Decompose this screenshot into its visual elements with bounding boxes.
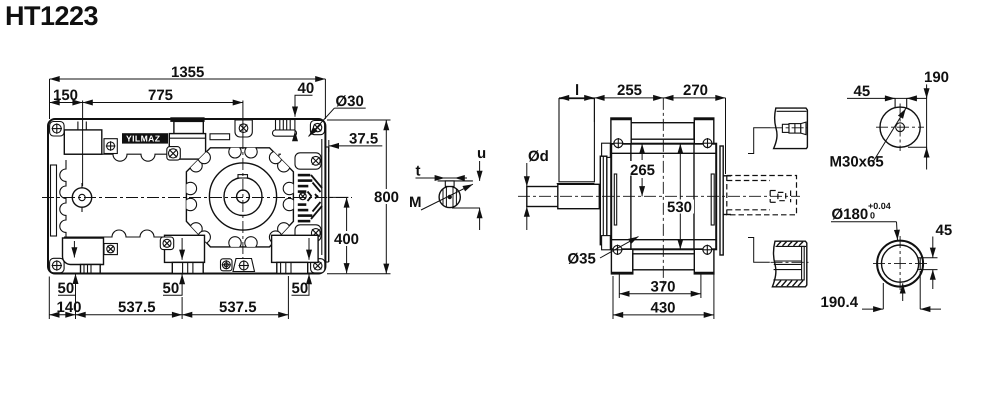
svg-text:Ø35: Ø35 xyxy=(568,251,596,268)
svg-text:l: l xyxy=(575,82,579,99)
dimension 370 xyxy=(619,275,701,299)
toothed casting line top xyxy=(64,154,281,161)
right ledge strip xyxy=(328,147,330,262)
label Ø35 leader xyxy=(568,237,639,268)
toothed casting line left xyxy=(60,160,66,241)
svg-text:50: 50 xyxy=(58,280,75,297)
bolt pad left of filler box xyxy=(167,147,181,161)
shaft end circle with keyway xyxy=(439,186,460,207)
input flange box upper-left xyxy=(64,130,102,154)
bottom mounting flange xyxy=(611,249,714,274)
rib strip left edge xyxy=(51,165,57,236)
dimension 400 xyxy=(328,197,360,273)
svg-text:M30x65: M30x65 xyxy=(830,154,884,171)
cooling grill bars xyxy=(298,174,313,223)
flange bolt top-left xyxy=(613,138,623,148)
svg-text:430: 430 xyxy=(651,300,676,317)
dimension 50 left foot xyxy=(58,241,77,297)
bolt tab on top edge xyxy=(235,120,252,137)
svg-text:370: 370 xyxy=(651,279,676,296)
svg-text:265: 265 xyxy=(630,162,655,179)
corner bolt bottom-left xyxy=(50,258,65,273)
grill chevrons xyxy=(308,175,323,219)
oil filler block top-center xyxy=(169,118,205,159)
left cover step top xyxy=(602,143,611,157)
dimension 37.5 xyxy=(329,131,383,153)
foot right xyxy=(272,235,319,273)
label Ø30 leader xyxy=(309,93,366,137)
svg-text:u: u xyxy=(477,145,486,162)
dimension 150 xyxy=(50,87,83,186)
input flange hole marks on top edge xyxy=(77,122,79,130)
svg-text:400: 400 xyxy=(334,231,359,248)
svg-text:50: 50 xyxy=(163,280,180,297)
keyway slot xyxy=(894,98,896,108)
svg-text:537.5: 537.5 xyxy=(118,299,156,316)
hollow output shaft end view xyxy=(873,236,928,292)
svg-text:50: 50 xyxy=(292,280,309,297)
shaft cover spool bottom xyxy=(771,241,809,287)
svg-text:45: 45 xyxy=(936,222,953,239)
dimension 50 right foot xyxy=(292,238,310,297)
dimension 430 xyxy=(613,275,714,320)
top mounting flange xyxy=(611,118,714,144)
svg-text:800: 800 xyxy=(374,189,399,206)
dimension 45 top xyxy=(847,83,927,100)
gearbox housing outline (side view) xyxy=(48,119,325,274)
label M30x65 leader xyxy=(874,109,906,162)
keyway detail t/u/M xyxy=(409,145,486,230)
casting scallops ring xyxy=(184,146,295,249)
wire horizontal centerline (left view) xyxy=(42,197,352,199)
dimension 190.4 xyxy=(821,271,942,311)
dimension 775 xyxy=(83,87,243,104)
flange bolt top-right xyxy=(702,138,712,148)
svg-text:1355: 1355 xyxy=(171,64,204,81)
input shaft xyxy=(527,187,558,207)
svg-text:190.4: 190.4 xyxy=(821,294,859,311)
dimension u xyxy=(479,161,481,181)
dimension 1355 xyxy=(50,64,326,119)
dimension 140 xyxy=(49,277,81,320)
output hollow shaft (hidden lines) xyxy=(727,176,797,215)
svg-text:40: 40 xyxy=(298,80,315,97)
dimension l xyxy=(559,82,594,99)
svg-text:190: 190 xyxy=(924,69,949,86)
dimension 190 xyxy=(908,69,949,170)
svg-text:HT1223: HT1223 xyxy=(5,1,99,31)
left cover step bottom xyxy=(602,236,611,250)
toothed casting line bottom xyxy=(64,230,281,237)
corner bolt bottom-right xyxy=(311,259,325,273)
input flange side box with bolt xyxy=(104,139,117,154)
dimension 537.5 left xyxy=(76,297,183,319)
corner bolt top-right xyxy=(310,121,324,135)
bottom center tab xyxy=(233,259,255,272)
dimension 270 xyxy=(663,82,725,174)
svg-text:+0.04: +0.04 xyxy=(868,201,891,211)
svg-text:37.5: 37.5 xyxy=(349,131,378,148)
dimension 530 xyxy=(666,144,694,250)
keyway of output bore xyxy=(238,175,248,178)
dimension 537.5 right xyxy=(182,276,288,319)
bracket top (torque arm mark) xyxy=(748,128,771,154)
keyway right xyxy=(918,257,924,259)
grill center bolt xyxy=(299,193,306,200)
svg-text:775: 775 xyxy=(148,87,173,104)
right side plate xyxy=(720,146,723,255)
dimension 40 xyxy=(295,80,315,139)
wire vertical centerline (left view) xyxy=(242,101,244,138)
svg-text:530: 530 xyxy=(667,199,692,216)
dimension Ød xyxy=(527,148,549,230)
output shaft stub lines xyxy=(723,175,731,177)
svg-text:YILMAZ: YILMAZ xyxy=(126,134,160,144)
YILMAZ logo plate xyxy=(122,133,168,143)
dimension 50 middle foot xyxy=(163,238,183,297)
input envelope box xyxy=(559,99,594,182)
svg-text:Ø180: Ø180 xyxy=(832,206,869,223)
left inner bearing strip xyxy=(614,174,616,225)
foot middle xyxy=(160,235,204,273)
bracket bottom (torque arm mark) xyxy=(748,238,770,263)
shaft cover spool top xyxy=(771,108,808,149)
svg-text:537.5: 537.5 xyxy=(219,299,257,316)
breather serrated block top-right xyxy=(273,120,297,137)
dimension 800 xyxy=(327,120,399,274)
svg-text:t: t xyxy=(416,163,421,180)
svg-text:140: 140 xyxy=(57,299,82,316)
input shaft small circle xyxy=(68,183,96,212)
svg-text:Ø30: Ø30 xyxy=(336,93,364,110)
right inner bearing strip xyxy=(711,174,714,225)
right inner wall line xyxy=(321,139,323,255)
foot left xyxy=(63,238,118,273)
dimension 45 right xyxy=(921,222,952,289)
bottom center bolt pad xyxy=(221,259,233,271)
svg-text:M: M xyxy=(409,194,422,211)
dimension 265 xyxy=(630,144,656,197)
corner bolt top-left xyxy=(50,122,65,137)
svg-text:255: 255 xyxy=(617,82,642,99)
svg-text:0: 0 xyxy=(870,211,875,221)
name plate xyxy=(210,134,230,140)
label Ø180 +0.04/0 xyxy=(831,201,903,301)
left bearing cover plate xyxy=(600,156,607,245)
wire vertical centerline (front view) xyxy=(662,98,664,288)
bearing bore circles xyxy=(209,163,276,230)
svg-text:45: 45 xyxy=(854,83,871,100)
label M leader xyxy=(421,184,473,210)
dimension 255 xyxy=(594,82,663,122)
input shaft end view circle xyxy=(830,98,925,170)
pad with bolt NE of octagon xyxy=(295,153,321,169)
svg-text:150: 150 xyxy=(53,87,78,104)
bore circle xyxy=(237,190,250,203)
flange bolt bottom-left xyxy=(612,245,622,255)
svg-text:Ød: Ød xyxy=(528,148,549,165)
wire horizontal centerline (front view) xyxy=(518,195,800,197)
input shaft boss xyxy=(558,184,600,208)
octagonal gear housing boss xyxy=(186,148,293,247)
gearbox body (front view) xyxy=(611,144,716,250)
svg-text:270: 270 xyxy=(683,82,708,99)
pad with bolt SE of octagon xyxy=(295,225,321,241)
dimension t xyxy=(416,177,467,179)
flange bolt bottom-right xyxy=(702,245,712,255)
